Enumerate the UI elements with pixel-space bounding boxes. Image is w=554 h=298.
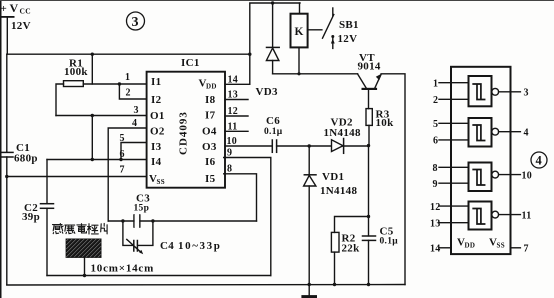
- svg-text:7: 7: [524, 244, 529, 255]
- transistor VT: [358, 74, 367, 88]
- svg-text:0.1μ: 0.1μ: [380, 237, 399, 247]
- svg-text:9: 9: [433, 179, 438, 190]
- svg-text:I7: I7: [205, 110, 216, 122]
- page left border: [0, 0, 2, 298]
- svg-text:I2: I2: [151, 94, 162, 106]
- svg-text:12: 12: [228, 106, 239, 117]
- gate U4 hysteresis: [473, 209, 484, 225]
- wire detector row: [277, 145, 369, 147]
- svg-text:C6: C6: [266, 115, 280, 127]
- pinout input wires: [439, 83, 469, 248]
- wire R1 left lead: [56, 84, 64, 116]
- wire pin14: [225, 3, 300, 84]
- wire O1 to I4: [91, 116, 93, 160]
- svg-text:SS: SS: [497, 242, 505, 250]
- svg-text:IC1: IC1: [181, 57, 200, 69]
- svg-text:O3: O3: [202, 141, 217, 153]
- wire C2 lower lead: [46, 208, 48, 275]
- resistor R3: [366, 109, 372, 126]
- svg-text:VD3: VD3: [256, 86, 278, 98]
- svg-text:CC: CC: [20, 7, 31, 16]
- wire O2 pin4: [108, 128, 146, 221]
- svg-text:3: 3: [132, 15, 139, 30]
- gate U1 hysteresis: [473, 84, 484, 100]
- gate U2 hysteresis: [473, 125, 484, 141]
- svg-text:C4: C4: [160, 240, 174, 252]
- relay K: [291, 14, 308, 48]
- svg-text:1N4148: 1N4148: [320, 185, 357, 197]
- svg-text:O4: O4: [202, 126, 217, 138]
- svg-text:12V: 12V: [338, 33, 358, 45]
- electrode plate: [66, 239, 101, 257]
- ground: [308, 285, 310, 296]
- label sensor plate chinese: [53, 223, 108, 234]
- circled 3: [127, 12, 145, 30]
- wire I4 pin6: [47, 159, 147, 161]
- capacitor C6: [272, 140, 276, 152]
- svg-text:O1: O1: [150, 110, 165, 122]
- wire O1 pin3: [56, 115, 147, 117]
- page top border: [0, 0, 554, 2]
- wire bus to R1 right: [91, 54, 93, 84]
- svg-text:I1: I1: [151, 76, 161, 88]
- wire C5 branch: [368, 146, 370, 236]
- svg-text:6: 6: [433, 136, 438, 147]
- svg-text:12: 12: [430, 202, 441, 213]
- diode VD3: [272, 3, 274, 47]
- svg-text:2: 2: [433, 95, 438, 106]
- wire I3 pin5: [121, 143, 147, 160]
- wire emitter: [381, 74, 405, 285]
- wire bottom ground bus: [7, 284, 405, 287]
- diode VD1: [308, 146, 310, 175]
- svg-text:4: 4: [132, 118, 137, 129]
- svg-text:680p: 680p: [14, 153, 38, 165]
- circled 4: [531, 152, 547, 168]
- svg-text:12V: 12V: [11, 20, 31, 32]
- resistor R1: [64, 81, 84, 87]
- svg-text:11: 11: [522, 211, 532, 222]
- CD4093 pinout outer box: [451, 67, 511, 254]
- IC pin numbers right: [227, 75, 239, 175]
- svg-text:2: 2: [126, 88, 131, 99]
- svg-text:7: 7: [120, 165, 125, 176]
- wire I6 pin9: [224, 158, 271, 276]
- svg-text:O2: O2: [150, 126, 165, 138]
- svg-text:VD1: VD1: [322, 171, 344, 183]
- svg-text:10k: 10k: [376, 117, 395, 129]
- capacitor C2: [41, 204, 54, 209]
- svg-text:3: 3: [134, 105, 139, 116]
- wire pin11 stub: [225, 130, 248, 132]
- svg-text:14: 14: [430, 244, 441, 255]
- wire VSS pin7: [7, 176, 147, 178]
- svg-text:39p: 39p: [22, 211, 40, 223]
- IC pin numbers left: [120, 72, 139, 176]
- svg-text:SB1: SB1: [339, 19, 359, 31]
- capacitor C4 loop: [123, 221, 133, 245]
- Vcc supply symbol: [2, 17, 14, 54]
- wire junction to pin2: [119, 84, 146, 99]
- IC1 box: [147, 72, 225, 188]
- svg-text:6: 6: [120, 149, 125, 160]
- svg-text:I3: I3: [151, 141, 162, 153]
- svg-text:22k: 22k: [342, 243, 361, 255]
- wire C2 upper lead: [46, 160, 48, 204]
- wire collector row: [273, 73, 358, 75]
- gate U1 bubble: [492, 88, 499, 95]
- svg-text:10cm×14cm: 10cm×14cm: [91, 263, 155, 275]
- svg-text:14: 14: [228, 75, 239, 86]
- wire left rail upper: [6, 54, 8, 152]
- svg-text:11: 11: [228, 122, 238, 133]
- gate U2 bubble: [492, 128, 499, 135]
- svg-text:I5: I5: [205, 173, 216, 185]
- wire R1 right to pin1: [83, 83, 146, 85]
- wire pin12 stub: [225, 115, 248, 117]
- capacitor C3: [134, 215, 140, 227]
- svg-text:I4: I4: [151, 156, 162, 168]
- gate U4 box: [469, 202, 492, 230]
- svg-text:CD4093: CD4093: [178, 111, 190, 155]
- wire O3 pin10: [225, 145, 272, 147]
- svg-text:DD: DD: [206, 83, 217, 91]
- svg-text:5: 5: [120, 133, 125, 144]
- pinout pin numbers: [430, 79, 532, 255]
- svg-text:+: +: [1, 3, 8, 15]
- gate U4 bubble: [492, 211, 499, 218]
- svg-text:1: 1: [433, 79, 438, 90]
- svg-text:9: 9: [227, 148, 232, 159]
- capacitor C1: [1, 152, 14, 157]
- wire electrode stub: [84, 257, 86, 275]
- gate U1 box: [469, 76, 492, 106]
- gate U3 box: [469, 163, 492, 192]
- wire top Vcc bus: [7, 53, 250, 55]
- wire left rail lower: [6, 157, 8, 285]
- wire sensor bottom: [47, 275, 271, 277]
- wire C3 row: [108, 220, 256, 222]
- svg-text:13: 13: [228, 90, 239, 101]
- svg-text:10: 10: [227, 136, 238, 147]
- svg-text:4: 4: [536, 154, 543, 168]
- wire R2 branch: [335, 217, 369, 233]
- svg-text:0.1μ: 0.1μ: [264, 127, 283, 137]
- switch SB1: [308, 29, 322, 31]
- svg-text:DD: DD: [465, 242, 476, 250]
- gate U3 hysteresis: [473, 170, 484, 186]
- svg-text:4: 4: [524, 128, 529, 139]
- svg-text:8: 8: [227, 164, 232, 175]
- svg-text:15p: 15p: [134, 204, 150, 214]
- svg-text:9014: 9014: [358, 61, 381, 73]
- svg-text:100k: 100k: [64, 66, 88, 78]
- svg-text:I8: I8: [205, 94, 216, 106]
- svg-text:SS: SS: [157, 178, 165, 186]
- svg-text:1: 1: [125, 72, 130, 83]
- pinout output wires: [499, 92, 521, 248]
- svg-text:K: K: [295, 26, 304, 38]
- svg-text:10~33p: 10~33p: [178, 240, 221, 252]
- gate U2 box: [469, 118, 492, 147]
- diode VD2: [332, 140, 344, 152]
- svg-text:V: V: [10, 1, 19, 15]
- wire I5 pin8: [224, 174, 257, 221]
- resistor R2: [331, 232, 339, 252]
- svg-text:3: 3: [524, 88, 529, 99]
- C4 arrow: [127, 239, 141, 252]
- svg-text:8: 8: [433, 163, 438, 174]
- capacitor C5: [363, 236, 376, 240]
- svg-text:5: 5: [433, 119, 438, 130]
- svg-text:10: 10: [522, 171, 533, 182]
- wire pin13 stub: [225, 99, 248, 101]
- svg-text:I6: I6: [205, 156, 216, 168]
- svg-text:1N4148: 1N4148: [324, 127, 361, 139]
- gate U3 bubble: [492, 171, 499, 178]
- svg-text:13: 13: [430, 219, 441, 230]
